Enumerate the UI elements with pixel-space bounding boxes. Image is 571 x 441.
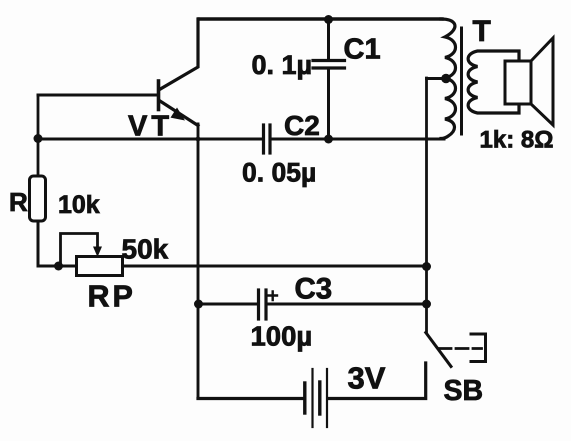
node: C3 row / supply junction dot [422,300,431,309]
speaker horn [531,38,553,125]
wire: supply vertical from transformer tap to switch [425,78,428,333]
wire: tap wire to primary coil [427,77,447,80]
resistor R [30,176,46,221]
node: C1 bottom junction dot [324,135,333,144]
wire: base wire [38,94,157,97]
svg-text:50k: 50k [122,234,169,265]
node: C1 top junction dot [324,15,333,24]
wire: C2 to transformer primary bottom [273,138,445,141]
transistor VT [159,19,199,126]
wire: left vertical (base node down to resistor R) [37,95,40,176]
svg-text:SB: SB [444,375,484,407]
wire: R bottom to RP row [38,221,77,266]
svg-text:C3: C3 [295,273,333,306]
capacitor C2 [264,125,271,153]
node: emitter/C3 junction dot [194,300,203,309]
switch SB [426,333,486,367]
capacitor C1 [313,19,345,139]
svg-text:T: T [473,15,491,48]
wire: RP row to supply line [123,265,427,268]
wire: C3 row right [268,303,427,306]
potentiometer RP wiper arm [61,234,103,265]
node: tiny crossing blob emitter/C2 row [196,137,201,142]
svg-text:10k: 10k [58,191,100,219]
wire: top rail from collector to transformer primary [199,17,442,20]
battery GB 3V [305,369,327,427]
svg-text:100µ: 100µ [251,321,313,352]
capacitor C3 (electrolytic) [259,290,278,319]
wire: bottom rail right of battery up to switch [329,363,426,399]
wire: bottom rail left of battery [198,397,303,400]
node: wiper junction dot [54,262,63,271]
svg-text:R: R [9,187,28,217]
transformer T core [460,28,463,134]
svg-text:RP: RP [88,280,136,314]
svg-text:0. 05µ: 0. 05µ [242,158,316,188]
svg-text:0. 1µ: 0. 1µ [252,50,313,80]
node: base/C2 junction dot [34,134,43,143]
wire: emitter vertical down to bottom rail [197,124,200,399]
transformer T secondary winding [468,51,519,113]
svg-text:1k: 8Ω: 1k: 8Ω [480,127,554,154]
potentiometer RP body [77,257,123,276]
wire: C2 row (base node to C2) [38,138,261,141]
svg-text:C2: C2 [284,110,320,141]
transformer T primary winding [441,19,456,139]
speaker body [505,61,531,104]
svg-text:C1: C1 [344,34,381,66]
wire: C3 row left [198,303,257,306]
node: primary tap dot [441,74,451,84]
svg-text:3V: 3V [348,361,386,396]
node: RP row / supply junction dot [422,262,431,271]
